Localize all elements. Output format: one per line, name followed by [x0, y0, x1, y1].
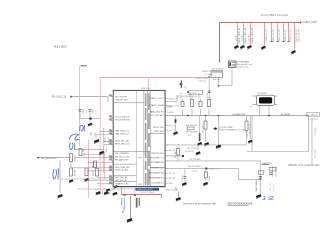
svg-text:L CR2B: L CR2B — [190, 93, 197, 95]
svg-text:XTAL25_CLK14: XTAL25_CLK14 — [149, 97, 164, 100]
svg-text:Front USB3.0 Connector: Front USB3.0 Connector — [261, 14, 289, 17]
svg-text:+V1.05A_PCH: +V1.05A_PCH — [232, 113, 246, 116]
svg-text:R22 4K7: R22 4K7 — [84, 149, 86, 156]
svg-text:PM_SRTCRST#: PM_SRTCRST# — [188, 166, 201, 168]
svg-text:PCH_PCIE_RX1: PCH_PCIE_RX1 — [115, 120, 131, 122]
svg-text:0.1u: 0.1u — [96, 110, 98, 114]
svg-text:SUSCLK_G18: SUSCLK_G18 — [115, 170, 129, 172]
svg-text:USB3F_PWR: USB3F_PWR — [303, 22, 317, 24]
svg-text:+V3A_RTC_X: +V3A_RTC_X — [208, 167, 220, 170]
svg-text:C99 1u: C99 1u — [104, 137, 106, 143]
svg-text:INTVRMEN B2: INTVRMEN B2 — [150, 162, 164, 164]
svg-text:R34 33: R34 33 — [198, 93, 200, 99]
svg-text:XTAL_GND: XTAL_GND — [246, 128, 249, 138]
svg-text:R71 1K: R71 1K — [209, 175, 211, 182]
svg-text:C346: C346 — [93, 109, 95, 113]
svg-text:DMI 1.05V: DMI 1.05V — [154, 131, 164, 133]
svg-text:SATA5: SATA5 — [168, 111, 173, 114]
svg-text:R88 10KOHM: R88 10KOHM — [186, 125, 198, 127]
svg-text:R21 10K: R21 10K — [75, 169, 77, 176]
svg-text:USB3F_RX_DP: USB3F_RX_DP — [279, 28, 281, 42]
svg-text:PM_PWRBTN#: PM_PWRBTN# — [115, 153, 130, 155]
svg-text:CLK_REQ: CLK_REQ — [315, 127, 317, 136]
svg-text:PROC 1.5K: PROC 1.5K — [153, 127, 164, 129]
svg-text:SB7XXXXXXXXXXXX: SB7XXXXXXXXXXXX — [228, 203, 253, 206]
svg-text:RTCRST# C12: RTCRST# C12 — [150, 168, 164, 170]
svg-text:C31 1u: C31 1u — [93, 170, 95, 176]
svg-text:GPIO33 / B12: GPIO33 / B12 — [115, 100, 128, 102]
svg-text:GPP_B4: GPP_B4 — [168, 173, 175, 175]
svg-text:B 3745: B 3745 — [192, 171, 197, 173]
svg-text:R55 4.7K: R55 4.7K — [203, 125, 205, 133]
svg-text:+V3A_PCH_4700: +V3A_PCH_4700 — [137, 188, 154, 191]
svg-text:DSWVRMEN B1: DSWVRMEN B1 — [149, 178, 165, 180]
svg-text:VCCDSW 3.3: VCCDSW 3.3 — [151, 183, 164, 185]
svg-text:PCH CLK SRC: PCH CLK SRC — [196, 78, 209, 80]
svg-text:multiturned it: multiturned it — [237, 65, 248, 68]
svg-text:USB3F_RX_DP: USB3F_RX_DP — [285, 28, 287, 42]
svg-text:C 7XB 1u: C 7XB 1u — [189, 96, 197, 98]
svg-text:C345: C345 — [83, 109, 85, 113]
svg-text:GPP_C9: GPP_C9 — [168, 125, 175, 127]
svg-text:C12: C12 — [103, 190, 106, 192]
svg-text:B_CLK25_R: B_CLK25_R — [307, 115, 318, 117]
svg-text:SATA_LED# E1: SATA_LED# E1 — [150, 111, 165, 114]
svg-text:R89 10KOHM: R89 10KOHM — [186, 131, 198, 133]
svg-text:R88: R88 — [91, 132, 93, 135]
svg-text:USB3F_VBUS_A0: USB3F_VBUS_A0 — [238, 28, 241, 44]
svg-text:RTC_CELL: RTC_CELL — [270, 182, 272, 191]
svg-text:Q17 AO3401: Q17 AO3401 — [237, 60, 250, 63]
svg-text:C13: C13 — [111, 190, 114, 192]
svg-text:R25 0: R25 0 — [106, 147, 108, 152]
svg-text:1uF 16V: 1uF 16V — [213, 79, 221, 81]
svg-text:SRTCRST# C1: SRTCRST# C1 — [150, 158, 165, 160]
svg-text:BIOS_SPI_CLK: BIOS_SPI_CLK — [115, 144, 130, 146]
svg-text:Y2 25MHz: Y2 25MHz — [257, 93, 266, 95]
svg-text:USB3F_RX_DP: USB3F_RX_DP — [273, 28, 275, 42]
svg-text:BIOS_SPI_CS#: BIOS_SPI_CS# — [115, 141, 130, 143]
svg-text:3V_LITH: 3V_LITH — [273, 183, 275, 191]
svg-text:X1: X1 — [251, 105, 253, 107]
svg-text:R70 10K: R70 10K — [175, 151, 177, 158]
svg-text:SUS_STAT_B5#: SUS_STAT_B5# — [115, 166, 131, 169]
svg-text:PM_SUS_CLK0: PM_SUS_CLK0 — [115, 156, 130, 158]
svg-text:SLP_S3#_B6: SLP_S3#_B6 — [115, 177, 128, 179]
svg-text:C61 0.1u: C61 0.1u — [182, 175, 184, 182]
svg-text:VCC_RTC E14: VCC_RTC E14 — [150, 115, 164, 117]
svg-text:USB3F_RX_DP: USB3F_RX_DP — [266, 28, 268, 42]
svg-text:BT1 CR2032: BT1 CR2032 — [275, 167, 277, 177]
svg-text:U29 SY8008: U29 SY8008 — [212, 69, 224, 71]
svg-text:USB3F_TX_DN: USB3F_TX_DN — [299, 29, 301, 42]
svg-text:B_CLK25: B_CLK25 — [281, 114, 291, 116]
svg-text:Q9: Q9 — [185, 86, 187, 88]
svg-text:GND: GND — [138, 184, 143, 186]
svg-text:Document to be replaced with: Document to be replaced with — [183, 203, 217, 206]
svg-text:PM_BATLOW#: PM_BATLOW# — [115, 158, 129, 161]
svg-text:LAN_TXD0_CL: LAN_TXD0_CL — [115, 130, 130, 133]
svg-text:SB600D to be replaced with Mot: SB600D to be replaced with Mot — [288, 164, 320, 167]
svg-text:PM_SUS_CLK: PM_SUS_CLK — [52, 97, 68, 99]
svg-text:R34 33: R34 33 — [207, 93, 209, 99]
svg-text:TP45, INTVRMEN 1K TO 3.3V: TP45, INTVRMEN 1K TO 3.3V — [219, 129, 246, 131]
svg-text:C11: C11 — [95, 190, 98, 192]
svg-text:U1B PCH: U1B PCH — [141, 88, 151, 90]
svg-text:to be here: to be here — [198, 80, 206, 83]
svg-text:SLP_S4#_B7: SLP_S4#_B7 — [115, 180, 128, 182]
svg-text:(1) PCH STRAP: (1) PCH STRAP — [219, 126, 233, 129]
svg-text:SIO / PCH IF: SIO / PCH IF — [115, 97, 127, 99]
svg-text:GPP_B5: GPP_B5 — [168, 178, 175, 180]
svg-text:INTRUDER# A3: INTRUDER# A3 — [149, 172, 164, 175]
svg-text:PM_SYNC R: PM_SYNC R — [187, 148, 198, 150]
svg-text:XTAL25_CLK48: XTAL25_CLK48 — [149, 104, 164, 107]
svg-text:SPKR 33 D14: SPKR 33 D14 — [151, 153, 164, 155]
svg-text:C again: C again — [205, 74, 213, 76]
svg-text:LAN_RXD0_CL: LAN_RXD0_CL — [115, 133, 130, 136]
svg-text:C41 10u: C41 10u — [242, 35, 244, 41]
svg-text:C41 10u: C41 10u — [249, 35, 251, 41]
svg-text:M.B 2 BIOS: M.B 2 BIOS — [54, 46, 67, 49]
svg-text:0.1u: 0.1u — [86, 110, 88, 114]
svg-text:RSMRST#_B9: RSMRST#_B9 — [115, 184, 129, 186]
svg-text:GB_RST 1K: GB_RST 1K — [185, 151, 195, 153]
svg-text:USB3F_VBUS_A0: USB3F_VBUS_A0 — [251, 28, 254, 44]
svg-text:PCH_PCIE_TX1: PCH_PCIE_TX1 — [115, 117, 131, 119]
svg-text:PCH_25M: PCH_25M — [315, 149, 317, 158]
svg-text:PM_RTCRST#: PM_RTCRST# — [190, 159, 202, 161]
svg-text:DSW: DSW — [168, 183, 172, 185]
svg-text:(PCH RTC WELL): (PCH RTC WELL) — [140, 192, 155, 194]
svg-text:B_CLK25_N: B_CLK25_N — [308, 118, 319, 120]
svg-text:USB3F_RX_DP: USB3F_RX_DP — [290, 28, 292, 42]
svg-text:VBAT_SENSE: VBAT_SENSE — [255, 180, 258, 192]
svg-text:USB3F_VBUS_A0: USB3F_VBUS_A0 — [244, 28, 247, 44]
svg-text:C41 10u: C41 10u — [236, 35, 238, 41]
